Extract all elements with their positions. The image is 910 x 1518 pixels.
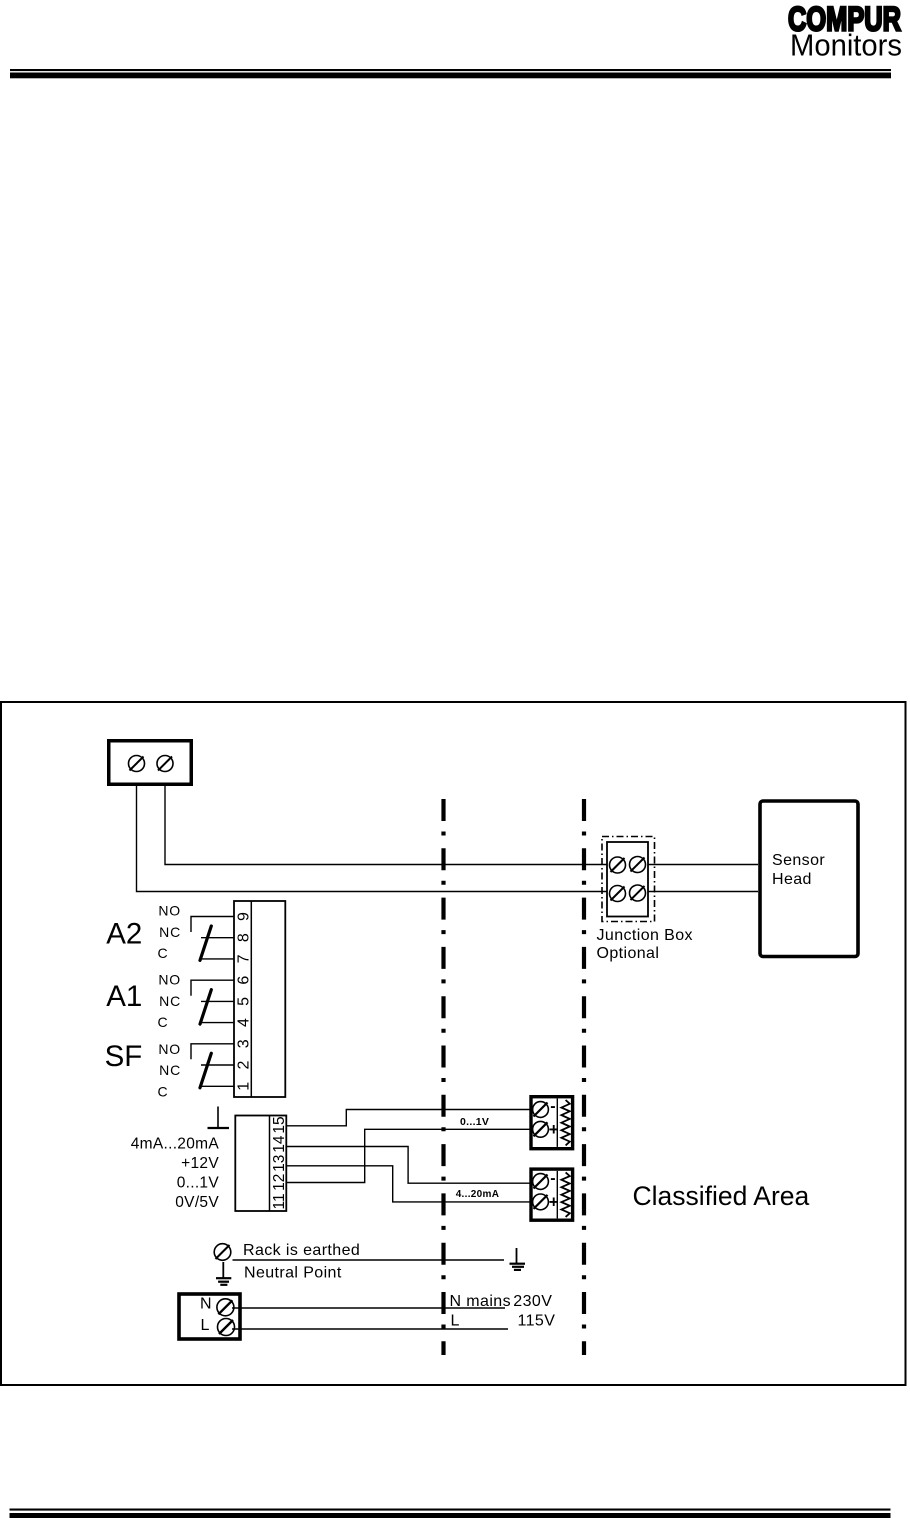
relay A1 contact group — [106, 972, 181, 1030]
svg-text:Sensor: Sensor — [772, 852, 825, 869]
pin number 7 — [236, 954, 253, 963]
svg-text:0V/5V: 0V/5V — [175, 1194, 219, 1211]
label L (mains) — [451, 1313, 460, 1330]
svg-text:Junction Box: Junction Box — [597, 927, 693, 944]
svg-text:1: 1 — [236, 1082, 253, 1091]
svg-text:11: 11 — [271, 1193, 288, 1209]
svg-text:12: 12 — [271, 1174, 288, 1191]
wire pin 14 to load R2 minus — [286, 1147, 529, 1184]
pin number 14 — [271, 1135, 288, 1153]
relay A2 contact group — [106, 903, 181, 961]
wire A2 NO to pin — [191, 917, 234, 933]
wire rack earth line — [233, 1259, 505, 1261]
svg-text:2: 2 — [236, 1060, 253, 1069]
wire TB1 right screw to junction box (upper sensor line) — [165, 786, 607, 865]
label 0V/5V — [175, 1194, 219, 1211]
svg-text:A2: A2 — [106, 918, 142, 951]
svg-text:0...1V: 0...1V — [460, 1116, 489, 1128]
svg-text:5: 5 — [236, 997, 253, 1006]
svg-text:+12V: +12V — [181, 1155, 219, 1172]
svg-text:4mA...20mA: 4mA...20mA — [131, 1136, 220, 1153]
label N mains — [450, 1293, 511, 1310]
svg-text:N mains: N mains — [450, 1293, 511, 1310]
svg-text:Head: Head — [772, 871, 812, 888]
logo COMPUR — [788, 1, 901, 39]
pin number 13 — [271, 1155, 288, 1172]
svg-text:8: 8 — [236, 933, 253, 942]
wire pin 13 to load R2 plus — [286, 1166, 529, 1202]
svg-text:L: L — [201, 1317, 210, 1334]
svg-text:Optional: Optional — [597, 945, 660, 962]
svg-text:230V: 230V — [513, 1293, 552, 1310]
SF moving contact — [200, 1053, 211, 1088]
terminal strip TB3 (pins 11-15) — [235, 1116, 286, 1212]
svg-text:NO: NO — [158, 972, 181, 988]
wire mains N — [232, 1307, 505, 1309]
svg-text:C: C — [158, 1014, 169, 1030]
svg-text:115V: 115V — [518, 1313, 556, 1330]
wire junction box to sensor head (upper) — [648, 864, 758, 866]
svg-text:NO: NO — [158, 903, 181, 919]
sensor head — [760, 801, 858, 957]
pin number 6 — [236, 976, 253, 985]
pin number 12 — [271, 1174, 288, 1191]
terminal strip TB2 (pins 1-9) — [234, 901, 285, 1097]
svg-text:NO: NO — [158, 1041, 181, 1057]
wire TB1 left screw to junction box (lower sensor line) — [137, 786, 608, 892]
pin number 3 — [236, 1039, 253, 1048]
svg-text:+: + — [549, 1120, 559, 1139]
label Junction Box — [597, 927, 693, 944]
svg-text:4: 4 — [236, 1018, 253, 1027]
logo Monitors — [790, 29, 902, 63]
barrier boundary line 2 (dash-dot) — [582, 799, 586, 1355]
header double rule — [10, 69, 891, 78]
pin number 5 — [236, 997, 253, 1006]
label Neutral Point — [244, 1265, 342, 1282]
svg-text:-: - — [550, 1098, 555, 1115]
wire A2 C to pin — [202, 958, 234, 960]
wire SF NC to pin — [201, 1064, 234, 1066]
svg-text:0...1V: 0...1V — [177, 1175, 220, 1192]
svg-text:9: 9 — [236, 912, 253, 921]
pin number 8 — [236, 933, 253, 942]
label 0...1V — [177, 1175, 220, 1192]
footer double rule — [10, 1509, 891, 1518]
wire A1 NO to pin — [191, 980, 234, 996]
svg-text:13: 13 — [271, 1155, 288, 1172]
load resistor block R2 (4...20mA output) — [531, 1169, 573, 1220]
svg-text:3: 3 — [236, 1039, 253, 1048]
earth mark for pin 15 — [208, 1107, 230, 1129]
svg-text:Rack is earthed: Rack is earthed — [243, 1242, 360, 1259]
svg-text:Neutral Point: Neutral Point — [244, 1265, 342, 1282]
pin number 11 — [271, 1193, 288, 1209]
label Optional — [597, 945, 660, 962]
svg-text:N: N — [200, 1296, 212, 1313]
wire pin 15 to load R1 minus — [286, 1110, 529, 1126]
label Classified Area — [633, 1181, 810, 1211]
svg-text:SF: SF — [105, 1040, 143, 1073]
svg-text:L: L — [451, 1313, 460, 1330]
wire SF NO to pin — [191, 1044, 234, 1060]
wire mains L — [232, 1328, 508, 1330]
svg-text:NC: NC — [159, 993, 181, 1009]
wire SF C to pin — [202, 1085, 234, 1087]
earth symbol (neutral point) — [216, 1262, 231, 1285]
pin number 15 — [271, 1116, 288, 1133]
svg-text:C: C — [158, 945, 169, 961]
chassis screw (rack earth) — [214, 1244, 231, 1261]
svg-text:NC: NC — [159, 1062, 181, 1078]
diagram frame — [1, 702, 906, 1385]
label 4...20mA (signal) — [456, 1189, 500, 1200]
wire pin 12 to load R1 plus — [286, 1129, 529, 1182]
svg-text:NC: NC — [159, 924, 181, 940]
A2 moving contact — [200, 926, 211, 960]
pin number 1 — [236, 1082, 253, 1091]
earth symbol (classified side) — [510, 1248, 526, 1270]
label Rack is earthed — [243, 1242, 360, 1259]
junction box outline (optional, dash-dot) — [602, 837, 655, 922]
svg-text:C: C — [158, 1083, 169, 1099]
svg-text:6: 6 — [236, 976, 253, 985]
label 0...1V (signal) — [460, 1116, 489, 1128]
wire A1 NC to pin — [201, 1000, 234, 1002]
pin number 4 — [236, 1018, 253, 1027]
svg-text:A1: A1 — [106, 980, 142, 1013]
pin number 2 — [236, 1060, 253, 1069]
svg-text:4...20mA: 4...20mA — [456, 1189, 500, 1200]
svg-text:7: 7 — [236, 954, 253, 963]
A1 moving contact — [200, 990, 211, 1024]
barrier boundary line 1 (dash-dot) — [441, 799, 445, 1355]
svg-text:-: - — [550, 1170, 555, 1187]
relay SF contact group — [105, 1040, 181, 1099]
wire A2 NC to pin — [201, 937, 234, 939]
svg-text:15: 15 — [271, 1116, 288, 1133]
terminal block mains (N/L) — [179, 1294, 240, 1339]
wire A1 C to pin — [202, 1022, 234, 1024]
svg-text:14: 14 — [271, 1135, 288, 1153]
load resistor block R1 (0...1V output) — [531, 1097, 573, 1149]
svg-text:Monitors: Monitors — [790, 29, 902, 63]
pin number 9 — [236, 912, 253, 921]
terminal block TB1 (rack sensor terminals) — [109, 741, 192, 785]
label 4mA...20mA — [131, 1136, 220, 1153]
label 230V — [513, 1293, 552, 1310]
svg-text:Classified Area: Classified Area — [633, 1181, 810, 1211]
label 115V — [518, 1313, 556, 1330]
junction box terminal block — [607, 842, 648, 917]
svg-text:+: + — [549, 1192, 559, 1211]
wire junction box to sensor head (lower) — [648, 891, 758, 893]
label +12V — [181, 1155, 219, 1172]
